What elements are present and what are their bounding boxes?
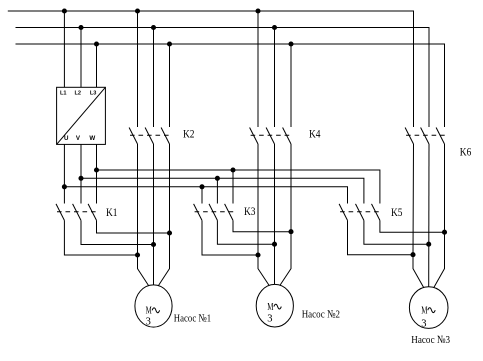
svg-text:Насос №2: Насос №2 — [302, 309, 340, 321]
svg-text:U: U — [64, 135, 69, 142]
wire drop bus3 to K3 — [201, 187, 203, 204]
svg-text:3: 3 — [267, 314, 272, 325]
svg-text:V: V — [76, 135, 81, 142]
wire supply line L1 (top bus) — [8, 11, 414, 127]
node junction L2-K2 tap — [151, 25, 155, 29]
contactor K4 pole 1 blade — [250, 128, 258, 145]
node junction W-bus1 — [94, 168, 98, 172]
wire K5 pole1 output — [348, 220, 414, 254]
wire K1 pole1 output — [64, 220, 137, 255]
wire drop bus1 to K3 — [232, 170, 234, 204]
wire K1 pole3 output — [97, 220, 170, 233]
node junction K1out1 — [135, 253, 139, 257]
contactor K3 pole 2 blade — [209, 204, 217, 221]
contactor K2 pole 2 blade — [145, 128, 153, 145]
wire K4 pole1 to motor2 — [258, 144, 269, 285]
wire K6 pole2 to motor3 — [428, 144, 430, 287]
node junction bus2-K3 tap — [215, 176, 219, 180]
contactor K5 linkage — [340, 211, 381, 213]
contactor K3 linkage — [195, 211, 234, 213]
wire drop L2 to converter — [80, 28, 82, 88]
node junction U-bus3 — [62, 185, 66, 189]
wire drop L1 to converter — [63, 11, 65, 87]
wire supply line L2 (second bus) — [16, 28, 430, 128]
svg-text:K1: K1 — [106, 205, 118, 219]
contactor K4 pole 2 blade — [266, 128, 274, 145]
node junction K3out3 — [289, 230, 293, 234]
node junction L1-K4 tap — [256, 9, 260, 13]
wire converter output W down — [96, 144, 98, 203]
wire K1 pole2 output — [81, 220, 154, 244]
wire drop L3 to K4 — [290, 44, 292, 127]
contactor K4 linkage — [251, 134, 292, 136]
motor M3 circle — [409, 287, 448, 329]
wire K4 pole2 to motor2 — [274, 144, 276, 285]
frequency converter U0 box — [57, 87, 106, 144]
contactor K1 linkage — [57, 211, 98, 213]
contactor K2 linkage — [130, 134, 171, 136]
wire K6 pole3 to motor3 — [434, 144, 445, 288]
svg-text:L2: L2 — [75, 91, 82, 97]
frequency converter U0 diagonal — [57, 87, 106, 144]
contactor K1 pole 2 blade — [73, 204, 81, 221]
svg-text:K4: K4 — [309, 127, 321, 141]
svg-text:M: M — [146, 306, 153, 317]
node junction L2-K4 tap — [272, 25, 276, 29]
wire K3 pole2 output — [217, 220, 274, 244]
wire K3 pole1 output — [202, 220, 258, 255]
wire mid bus 2 (from V) — [81, 178, 364, 203]
node junction K5out3 — [442, 230, 446, 234]
contactor K5 pole 3 blade — [372, 204, 380, 221]
motor M2 circle — [256, 284, 293, 327]
wire drop L3 to K2 — [169, 44, 171, 127]
svg-text:Насос №3: Насос №3 — [411, 334, 450, 346]
svg-text:K5: K5 — [391, 205, 403, 219]
contactor K2 pole 1 blade — [129, 128, 137, 145]
svg-text:K3: K3 — [244, 204, 256, 218]
svg-text:3: 3 — [421, 318, 426, 329]
wire K5 pole2 output — [364, 220, 429, 244]
contactor K2 pole 3 blade — [161, 128, 169, 145]
wire supply line L3 (third bus) — [16, 44, 445, 127]
node junction bus1-K3 tap — [231, 168, 235, 172]
label M3 tilde wave — [428, 308, 435, 313]
wire drop L3 to converter — [96, 44, 98, 87]
node junction K3out1 — [256, 253, 260, 257]
svg-text:W: W — [89, 135, 95, 142]
contactor K5 pole 1 blade — [339, 204, 347, 221]
contactor K3 pole 3 blade — [225, 204, 233, 221]
node junction L3-K2 tap — [167, 42, 171, 46]
wire drop L2 to K4 — [274, 28, 276, 128]
contactor K6 pole 3 blade — [436, 128, 444, 145]
wire drop L1 to K2 — [137, 11, 139, 127]
node junction L1-converter tap — [62, 9, 66, 13]
wire K4 pole3 to motor2 — [280, 144, 291, 285]
wire K3 pole3 output — [233, 220, 291, 231]
svg-text:L3: L3 — [90, 91, 97, 97]
wire converter output V down — [80, 144, 82, 203]
wire K5 pole3 output — [380, 220, 445, 232]
svg-text:M: M — [421, 306, 428, 317]
contactor K1 pole 1 blade — [56, 204, 64, 221]
label M2 tilde wave — [274, 304, 281, 309]
contactor K3 pole 1 blade — [194, 204, 202, 221]
node junction L2-converter tap — [79, 25, 83, 29]
node junction L3-K4 tap — [289, 42, 293, 46]
svg-text:K2: K2 — [183, 127, 195, 141]
contactor K4 pole 3 blade — [283, 128, 291, 145]
wire drop L1 to K4 — [257, 11, 259, 127]
svg-text:M: M — [267, 302, 274, 313]
wire K6 pole1 to motor3 — [413, 144, 424, 288]
wire mid bus 3 (from U) — [64, 187, 347, 204]
wire K2 pole1 to motor1 — [138, 144, 149, 286]
wire mid bus 1 (from W) — [97, 170, 380, 204]
wire K2 pole3 to motor1 — [158, 144, 169, 286]
node junction K5out2 — [427, 242, 431, 246]
node junction bus3-K3 tap — [200, 185, 204, 189]
node junction K5out1 — [411, 253, 415, 257]
node junction L3-converter tap — [94, 42, 98, 46]
contactor K6 linkage — [406, 134, 445, 136]
svg-text:K6: K6 — [460, 145, 472, 159]
node junction K1out2 — [151, 242, 155, 246]
contactor K1 pole 3 blade — [88, 204, 96, 221]
contactor K6 pole 2 blade — [421, 128, 429, 145]
svg-text:Насос №1: Насос №1 — [174, 312, 211, 324]
node junction K1out3 — [167, 231, 171, 235]
svg-text:3: 3 — [146, 317, 151, 328]
wire K2 pole2 to motor1 — [153, 144, 155, 285]
node junction V-bus2 — [79, 176, 83, 180]
node junction L1-K2 tap — [135, 9, 139, 13]
wire converter output U down — [63, 144, 65, 203]
wire drop bus2 to K3 — [216, 178, 218, 203]
label M1 tilde wave — [152, 308, 159, 313]
contactor K5 pole 2 blade — [356, 204, 364, 221]
motor M1 circle — [135, 285, 172, 327]
node junction K3out2 — [272, 242, 276, 246]
wire drop L2 to K2 — [153, 28, 155, 128]
contactor K6 pole 1 blade — [405, 128, 413, 145]
svg-text:L1: L1 — [60, 91, 67, 97]
